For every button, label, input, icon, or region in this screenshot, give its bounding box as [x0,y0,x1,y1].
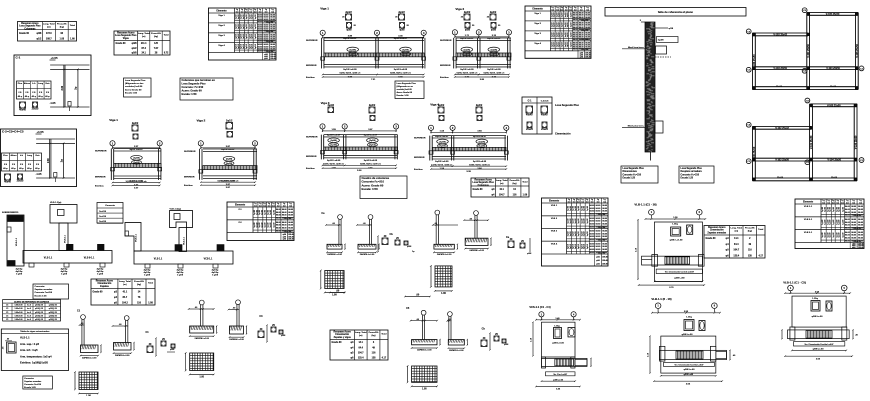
svg-text:1φ1/2: 1φ1/2 [830,233,832,238]
svg-text:84.60: 84.60 [845,205,850,208]
svg-text:φ1/2@.15: φ1/2@.15 [35,308,43,310]
svg-text:84.60: 84.60 [590,245,595,248]
plan1 beam V-105 top right [807,12,858,14]
svg-text:Vigas: Vigas [123,38,130,40]
svg-text:(m): (m) [597,201,600,203]
svg-text:(m): (m) [852,202,855,204]
footing Z-a plan grid [325,271,344,289]
svg-text:f'c=210: f'c=210 [99,216,107,218]
svg-text:1φ1/2: 1φ1/2 [833,207,835,212]
svg-text:(m): (m) [841,202,844,204]
plan1 beam right vertical [854,13,856,90]
VLB3 right dim [852,330,854,339]
svg-text:1φ1/2: 1φ1/2 [261,210,263,215]
svg-text:84.60: 84.60 [276,214,281,217]
svg-text:Long. Total: Long. Total [496,179,508,182]
svg-text:1φ1/2: 1φ1/2 [261,223,263,228]
svg-text:INFERIOR: INFERIOR [306,65,317,67]
svg-text:40 φ: 40 φ [3,167,8,170]
svg-text:4φ1/2φ: 4φ1/2φ [212,271,219,274]
note box strip left [621,166,658,183]
svg-text:1φ1/2: 1φ1/2 [559,12,561,17]
svg-text:VCS-1.1: VCS-1.1 [204,259,213,261]
svg-text:Escala 1:25: Escala 1:25 [24,387,36,389]
svg-text:(m): (m) [142,36,146,38]
mid strip notch 1 [145,264,150,268]
mid strip notch 2 [178,264,183,268]
svg-text:84.60: 84.60 [282,208,287,211]
svg-text:1@05, 9@10, r@20 c/e: 1@05, 9@10, r@20 c/e [483,73,505,75]
VLB1 text bar [656,269,702,273]
svg-text:1.08: 1.08 [148,303,153,305]
svg-text:84.60: 84.60 [596,248,601,251]
svg-text:84.60: 84.60 [845,221,850,224]
svg-text:Concreto f'c=210: Concreto f'c=210 [24,383,42,386]
svg-text:(m): (m) [735,230,739,232]
svg-text:84.60: 84.60 [845,211,850,214]
svg-text:84.60: 84.60 [573,28,578,31]
svg-text:84.60: 84.60 [590,210,595,213]
svg-text:1φ1/2: 1φ1/2 [252,34,254,39]
svg-text:Grado 60: Grado 60 [116,43,127,45]
svg-text:7.67: 7.67 [154,48,159,50]
foundation strip horizontal mid [134,251,233,264]
svg-text:Losa Segundo Piso: Losa Segundo Piso [555,103,579,107]
svg-text:V-104 25x50: V-104 25x50 [826,67,840,70]
svg-text:+1.55: +1.55 [36,130,44,134]
plan2 column marks [810,104,813,107]
stirrup detail above viga 2 left [464,14,470,20]
svg-text:V-105 25x50: V-105 25x50 [827,104,841,107]
svg-text:SUPERIOR: SUPERIOR [184,151,196,153]
svg-text:V-102 25x42: V-102 25x42 [775,127,789,130]
svg-text:4φ1/2φ: 4φ1/2φ [177,269,184,272]
svg-text:104.2: 104.2 [122,302,128,305]
svg-text:1φ1/2: 1φ1/2 [570,206,572,211]
svg-text:84.60: 84.60 [851,237,856,240]
svg-text:2φ1/2: 2φ1/2 [132,122,139,125]
svg-text:(m): (m) [245,11,248,13]
svg-text:VLB 1-1: VLB 1-1 [804,206,813,208]
svg-text:Acero Grado 60: Acero Grado 60 [397,91,413,94]
svg-text:1@05, 9@10, r@20 c/e: 1@05, 9@10, r@20 c/e [456,73,478,75]
svg-text:Long. Total: Long. Total [355,331,367,334]
svg-text:41.1: 41.1 [499,188,504,191]
svg-text:2φ1/2 L=6.07: 2φ1/2 L=6.07 [394,37,408,40]
svg-text:Grado 60: Grado 60 [93,292,104,294]
VLB3 hatched beam band [788,330,850,339]
svg-text:(m): (m) [241,11,244,13]
footing detail second elevation [124,316,129,321]
svg-text:1@05, 9@10, r@20 c/e: 1@05, 9@10, r@20 c/e [126,181,148,183]
svg-text:1φ1/2: 1φ1/2 [584,231,586,236]
svg-text:(2φ5/8): (2φ5/8) [402,49,409,51]
svg-text:84.60: 84.60 [845,214,850,217]
svg-text:+1.55: +1.55 [50,56,58,60]
svg-text:1φ1/2: 1φ1/2 [238,44,240,49]
svg-text:φ1/2: φ1/2 [132,48,138,50]
svg-text:2φ1/2: 2φ1/2 [226,120,233,123]
svg-text:172.0: 172.0 [46,33,52,35]
svg-text:V-106 25x50: V-106 25x50 [856,44,859,58]
svg-text:84.60: 84.60 [602,242,607,245]
svg-text:84.60: 84.60 [596,230,601,233]
svg-text:128.46: 128.46 [270,57,276,60]
strip notch 3 [100,263,105,267]
svg-text:84.60: 84.60 [602,210,607,213]
svg-text:f'c=210: f'c=210 [99,211,107,213]
svg-text:Elemento: Elemento [803,201,814,204]
footing detail Z-b upper [368,215,373,220]
svg-text:(m): (m) [586,201,589,203]
footing detail C-2 elevation centered [199,300,204,305]
svg-text:Z1: Z1 [6,315,8,317]
svg-text:Estr: Estr [45,82,49,85]
svg-text:2φ1/2 L=6.05: 2φ1/2 L=6.05 [435,160,449,163]
svg-text:1φ1/2: 1φ1/2 [570,219,572,224]
svg-text:1φ1/2: 1φ1/2 [567,22,569,27]
footing C-2 plan grid [190,353,214,371]
svg-text:84.60: 84.60 [596,233,601,236]
svg-text:2φ1/2 L=6.05: 2φ1/2 L=6.05 [460,68,474,71]
svg-text:Elemento: Elemento [532,8,543,11]
svg-text:Total: Total [522,181,527,184]
VLB2 right tail dim [729,350,731,359]
svg-text:1@05, 9@10, r@20 c/e: 1@05, 9@10, r@20 c/e [431,164,453,166]
svg-text:1@05, 9@10, r@20 c/e: 1@05, 9@10, r@20 c/e [217,180,239,182]
svg-text:(m): (m) [591,201,594,203]
note box: columnas que terminan [180,78,233,100]
svg-text:1φ3/8: 1φ3/8 [658,39,665,42]
svg-text:C-1: C-1 [16,56,21,60]
svg-text:φ1/2@.15: φ1/2@.15 [49,319,57,321]
svg-text:25x50: 25x50 [830,86,837,88]
plan1 column marks [807,13,810,16]
svg-text:ZAPATA L=1.00: ZAPATA L=1.00 [229,338,244,341]
svg-text:(m): (m) [259,205,262,207]
svg-text:-1.05: -1.05 [50,101,56,105]
svg-text:Escala 1:50: Escala 1:50 [125,92,138,94]
svg-text:2φ1/2 L=6.07: 2φ1/2 L=6.07 [473,135,487,138]
svg-text:1.00: 1.00 [422,387,427,390]
svg-text:128.46: 128.46 [858,246,864,249]
svg-text:(m): (m) [586,9,589,11]
svg-text:Long: Long [27,155,33,157]
svg-text:VLB-1.1 (6 - 16): VLB-1.1 (6 - 16) [651,297,671,301]
svg-text:1@05, 9@10, r@20 c/e: 1@05, 9@10, r@20 c/e [390,73,412,75]
svg-text:Escala: 1:50: Escala: 1:50 [362,187,379,191]
svg-text:φ3/8 L=1.50: φ3/8 L=1.50 [552,342,564,344]
svg-text:VLS-1.1: VLS-1.1 [20,336,30,340]
strip attachment box mid [656,46,667,54]
svg-text:25x25: 25x25 [526,128,533,131]
svg-text:φ3/8 L=50: φ3/8 L=50 [674,277,685,280]
svg-text:1.06: 1.06 [523,195,528,197]
svg-text:1φ1/2: 1φ1/2 [252,14,254,19]
svg-text:1φ1/2: 1φ1/2 [238,24,240,29]
svg-text:φ1/2@.15: φ1/2@.15 [35,305,43,307]
svg-text:40x40: 40x40 [526,114,533,117]
svg-text:14.1: 14.1 [734,237,739,240]
svg-text:40 φ: 40 φ [25,95,30,98]
column section symbol box [522,97,552,134]
svg-text:84.60: 84.60 [602,204,607,207]
plan1 beam bottom [753,86,859,88]
svg-text:(m): (m) [561,9,564,11]
svg-text:INFERIOR: INFERIOR [95,177,106,179]
svg-text:VLS-1.1: VLS-1.1 [44,258,53,260]
svg-text:1φ1/2: 1φ1/2 [575,231,577,236]
svg-text:SUPERIOR: SUPERIOR [95,151,107,153]
svg-text:(m): (m) [236,11,239,13]
svg-text:VLS-1.1: VLS-1.1 [154,259,163,261]
svg-text:Ver. Cimentación Corrida L=4: Ver. Cimentación Corrida L=4.07 [665,270,694,273]
svg-text:Concreto: Concreto [105,204,115,207]
svg-text:84.60: 84.60 [851,221,856,224]
svg-text:1φ1/2: 1φ1/2 [567,12,569,17]
svg-text:(m): (m) [581,201,584,203]
svg-text:1.00x1.00: 1.00x1.00 [15,308,23,310]
svg-text:(m): (m) [846,202,849,204]
svg-text:(m): (m) [551,9,554,11]
svg-text:VLB 1: VLB 1 [551,205,558,207]
svg-text:1φ1/2: 1φ1/2 [825,207,827,212]
beam schedule table vigas (left) [209,8,277,60]
svg-text:h=.5: h=.5 [27,315,31,317]
svg-text:Concreto f'c=210: Concreto f'c=210 [623,173,642,176]
svg-text:Acero Grado 60: Acero Grado 60 [125,88,142,91]
svg-text:1.15φ: 1.15φ [672,223,678,226]
svg-text:VLB 2-1: VLB 2-1 [804,219,813,221]
svg-text:(2φ5/8): (2φ5/8) [330,140,337,142]
svg-text:84.60: 84.60 [851,224,856,227]
svg-text:φ3/8: φ3/8 [132,43,138,45]
svg-text:Escala: 1:50: Escala: 1:50 [397,95,410,97]
svg-text:Escala 1:25: Escala 1:25 [35,295,48,297]
svg-text:1φ1/2: 1φ1/2 [842,207,844,212]
svg-text:Zapatas armadas: Zapatas armadas [35,288,54,291]
svg-text:(2φ5/8): (2φ5/8) [491,49,498,51]
svg-text:SUPERIOR: SUPERIOR [414,138,426,140]
stirrup detail above viga 1 right [399,14,405,20]
svg-text:1.15φ: 1.15φ [812,297,818,300]
title bar: losa de techo [605,8,746,17]
svg-text:84.60: 84.60 [288,227,293,230]
svg-text:φ3/8: φ3/8 [346,29,352,32]
svg-text:1φ1/2: 1φ1/2 [830,207,832,212]
svg-text:VCS-1.1: VCS-1.1 [65,234,67,243]
stirrup detail above viga 1 left [346,14,352,20]
svg-text:84.60: 84.60 [276,208,281,211]
svg-text:84.60: 84.60 [858,231,863,234]
svg-text:(m): (m) [568,201,571,203]
svg-text:4φ1/2φ: 4φ1/2φ [61,270,68,273]
svg-text:1φ1/2: 1φ1/2 [559,32,561,37]
svg-text:(kg): (kg) [371,335,375,337]
svg-text:Resumen Acero: Resumen Acero [96,280,114,283]
svg-text:Concreto: f'c=210: Concreto: f'c=210 [182,85,204,89]
foundation leg VCS-1.1 left [59,223,68,251]
column square on strip 2 [98,244,105,250]
strip left leader lower [622,127,645,129]
svg-text:1 φ3/8: 1 φ3/8 [61,274,68,276]
svg-text:Cb: Cb [390,233,394,236]
svg-text:V-105 25x50: V-105 25x50 [826,13,840,16]
svg-text:84.60: 84.60 [845,231,850,234]
svg-text:Losa Segundo Piso: Losa Segundo Piso [681,168,703,170]
svg-text:84.60: 84.60 [602,230,607,233]
svg-text:1φ1/2: 1φ1/2 [839,233,841,238]
svg-text:(1φ1/2): (1φ1/2) [402,54,409,56]
svg-text:(kg): (kg) [154,36,158,38]
svg-text:84.60: 84.60 [602,235,607,238]
svg-text:1φ1/2: 1φ1/2 [839,220,841,225]
svg-text:(kg): (kg) [512,183,516,185]
svg-text:Losa Segundo Piso: Losa Segundo Piso [623,168,645,170]
plan2 beam middle right [812,157,858,159]
strip left leader upper [622,48,645,50]
svg-text:Viga 3: Viga 3 [534,33,541,35]
svg-text:84.60: 84.60 [288,211,293,214]
svg-text:(m): (m) [836,202,839,204]
svg-text:(m): (m) [827,202,830,204]
svg-text:84.60: 84.60 [858,224,863,227]
svg-text:104.7: 104.7 [733,249,739,252]
svg-text:1.66: 1.66 [70,38,75,40]
svg-text:VLB 3: VLB 3 [551,231,558,233]
svg-text:(1φ1/2): (1φ1/2) [330,145,337,147]
svg-text:108.7: 108.7 [46,38,52,40]
svg-text:INFERIOR: INFERIOR [440,65,451,67]
svg-text:Viga 1: Viga 1 [534,13,541,15]
svg-text:(m): (m) [272,205,275,207]
svg-text:40 φ: 40 φ [19,167,24,170]
svg-text:Zapatas armadas: Zapatas armadas [24,380,42,383]
svg-text:Viga 2: Viga 2 [218,25,225,27]
note box strip right [679,166,714,183]
svg-text:φ5/8 L=.90: φ5/8 L=.90 [812,315,824,318]
VLB3 text bar [794,342,845,346]
svg-text:84.60: 84.60 [590,223,595,226]
svg-text:2φ1/2 L=6.07: 2φ1/2 L=6.07 [487,37,501,40]
svg-text:1.00: 1.00 [332,294,337,297]
svg-text:Estribos: Estribos [306,76,316,79]
svg-text:84.60: 84.60 [602,248,607,251]
svg-text:Piso: Piso [3,155,8,157]
svg-text:211.1: 211.1 [141,43,147,45]
svg-text:1 φ3/8: 1 φ3/8 [177,275,184,277]
svg-text:h=.5: h=.5 [27,319,31,321]
svg-text:(kg): (kg) [748,230,752,232]
svg-text:128.46: 128.46 [288,238,294,241]
svg-text:2φ1/2 L=6.07: 2φ1/2 L=6.07 [343,37,357,40]
svg-text:2φ1/2: 2φ1/2 [476,104,483,107]
svg-text:1φ1/2: 1φ1/2 [243,44,245,49]
svg-text:1 φ3/8: 1 φ3/8 [212,275,219,277]
svg-text:1 φ3/8: 1 φ3/8 [16,274,23,276]
svg-text:25x25: 25x25 [32,108,39,111]
svg-text:Long. Total: Long. Total [138,32,150,35]
svg-text:falta de referencia el plano: falta de referencia el plano [658,10,694,14]
svg-text:84.60: 84.60 [590,233,595,236]
stirrup detail above viga 4 right [476,107,482,113]
svg-text:84.60: 84.60 [276,221,281,224]
svg-text:Cimentación: Cimentación [710,229,724,232]
svg-text:-1.05: -1.05 [36,172,42,176]
svg-text:ZAPATA L=1.00: ZAPATA L=1.00 [82,356,97,359]
svg-text:Estribos: 1φ3/8@1c/20: Estribos: 1φ3/8@1c/20 [20,361,48,365]
beam schedule table vigas (right) [525,6,591,58]
svg-text:h=.5: h=.5 [27,312,31,314]
svg-text:1@05, 9@10, r@20 c/e: 1@05, 9@10, r@20 c/e [469,164,491,166]
column schedule box C-2=C3=C4=C5 [1,129,77,187]
stirrup detail above mid-left beam [132,125,138,131]
svg-text:Zapatas y vigas: Zapatas y vigas [334,336,352,339]
VCS hatched beam band [541,358,587,366]
footing detail Z-c upper right [435,210,440,215]
svg-text:2φ1/2 L=6.05: 2φ1/2 L=6.05 [327,159,341,162]
svg-text:h=.5: h=.5 [27,308,31,310]
svg-text:(m): (m) [277,205,280,207]
svg-text:2φ: 2φ [75,86,78,89]
svg-text:Losa Segundo Piso: Losa Segundo Piso [397,83,417,85]
foundation strip VLS-1.1 horizontal left [23,251,112,264]
svg-text:25x25: 25x25 [17,180,24,183]
svg-text:84.60: 84.60 [282,211,287,214]
svg-text:VCS-1.1: VCS-1.1 [136,233,138,242]
svg-text:(1φ1/2): (1φ1/2) [350,54,357,56]
svg-text:1@05, 9@10, r@20 c/e: 1@05, 9@10, r@20 c/e [339,73,361,75]
svg-text:25x50: 25x50 [776,86,783,88]
footing C-1 plan grid [79,372,98,390]
svg-text:Total: Total [148,282,153,285]
svg-text:4φ1/2φ: 4φ1/2φ [144,271,151,274]
svg-text:(m): (m) [832,202,835,204]
svg-text:2φ1/2: 2φ1/2 [464,11,471,14]
svg-text:84.60: 84.60 [258,49,263,52]
svg-text:84.60: 84.60 [858,237,863,240]
svg-text:Acero: Grado 60: Acero: Grado 60 [182,89,203,93]
svg-text:VLB 2: VLB 2 [551,218,558,220]
svg-text:1φ1/2: 1φ1/2 [842,233,844,238]
svg-text:Viga 2: Viga 2 [197,119,206,123]
dim tick top far left [330,292,345,294]
svg-text:2φ1/2: 2φ1/2 [328,104,335,107]
svg-text:84.60: 84.60 [596,245,601,248]
svg-text:Arm. sup.: 4 φ5: Arm. sup.: 4 φ5 [20,342,40,346]
svg-text:1φ1/2: 1φ1/2 [578,219,580,224]
note box: losa segundo piso materials [124,78,152,97]
svg-text:Cb: Cb [482,328,486,331]
svg-text:41.1: 41.1 [123,291,128,294]
svg-text:40 φ: 40 φ [11,167,16,170]
svg-text:2φ1/2 L=6.07: 2φ1/2 L=6.07 [221,148,235,151]
svg-text:(kg): (kg) [137,284,141,286]
svg-text:1φ1/2: 1φ1/2 [825,233,827,238]
svg-text:(m): (m) [573,201,576,203]
svg-text:Z1: Z1 [6,319,8,321]
svg-text:sentidos) h=0.20: sentidos) h=0.20 [125,85,143,88]
svg-text:2φ1/2 L=6.07: 2φ1/2 L=6.07 [460,37,474,40]
footing detail C-3 elevation [236,300,241,305]
svg-text:2φ1/2: 2φ1/2 [345,11,352,14]
plan2 beam top right [811,103,858,105]
svg-text:1.00: 1.00 [199,376,204,379]
plan1 beam V-105 top left [753,32,809,34]
svg-text:2φ1/2: 2φ1/2 [398,11,405,14]
svg-text:φ3/8: φ3/8 [669,27,674,30]
svg-text:1φ1/2: 1φ1/2 [246,24,248,29]
